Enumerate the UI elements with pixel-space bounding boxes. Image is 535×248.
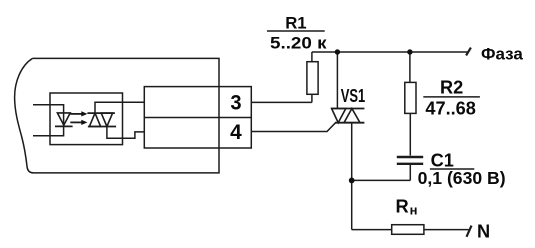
svg-text:н: н [410,202,418,217]
svg-text:R: R [396,195,409,216]
svg-text:R2: R2 [440,78,463,98]
svg-text:R1: R1 [285,14,306,33]
svg-text:N: N [477,222,490,242]
svg-text:3: 3 [230,91,241,115]
svg-text:0,1 (630 В): 0,1 (630 В) [418,168,506,188]
svg-text:47..68: 47..68 [425,99,476,119]
svg-text:VS1: VS1 [341,85,366,106]
svg-text:Фаза: Фаза [481,44,523,63]
svg-text:5..20 к: 5..20 к [270,34,327,53]
svg-text:4: 4 [230,120,242,144]
